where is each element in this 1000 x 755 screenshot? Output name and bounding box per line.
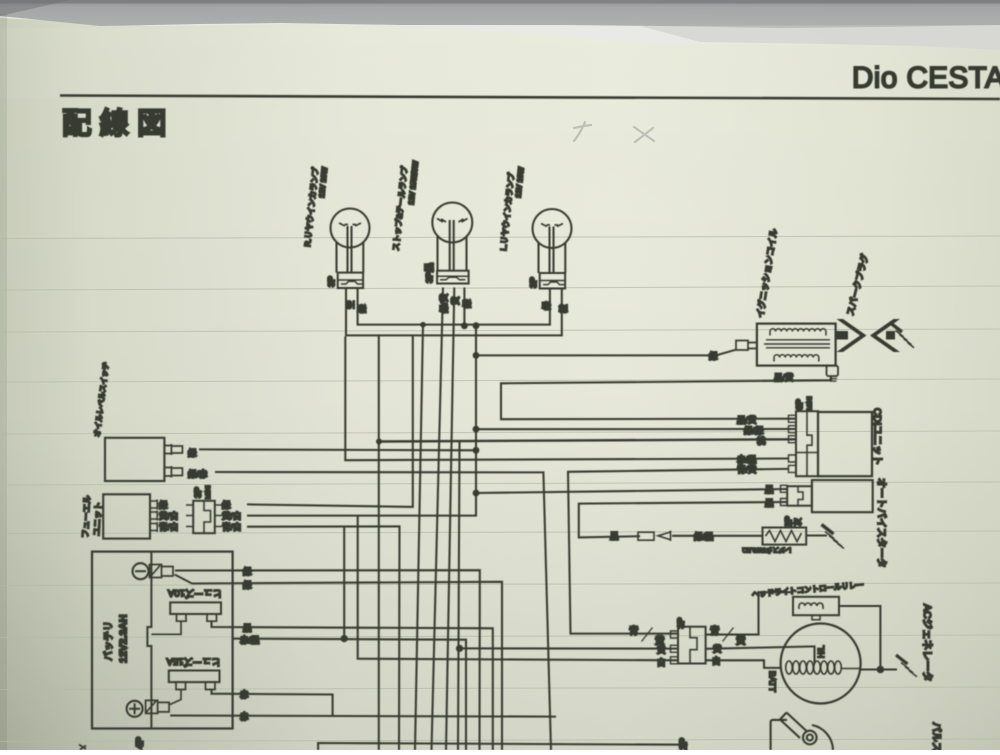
svg-text:3P: 3P <box>327 276 337 287</box>
svg-text:青/白: 青/白 <box>159 522 178 532</box>
svg-text:黄: 黄 <box>713 644 722 654</box>
svg-text:黄: 黄 <box>736 635 746 647</box>
svg-text:青/白: 青/白 <box>222 522 241 532</box>
svg-text:Dio CESTA: Dio CESTA <box>852 62 1000 95</box>
svg-text:3P: 3P <box>676 617 686 628</box>
svg-text:黒: 黒 <box>765 498 774 508</box>
svg-text:ユニット: ユニット <box>92 502 104 536</box>
svg-text:H/L: H/L <box>817 645 826 658</box>
svg-text:赤/黒: 赤/黒 <box>737 455 757 465</box>
svg-text:橙: 橙 <box>559 304 569 313</box>
svg-text:緑/緑: 緑/緑 <box>744 426 764 436</box>
svg-text:ヒューズ10A: ヒューズ10A <box>167 587 222 599</box>
svg-text:青: 青 <box>629 625 639 637</box>
svg-text:黄: 黄 <box>657 645 666 655</box>
svg-text:3P: 3P <box>193 487 203 498</box>
svg-text:黄: 黄 <box>451 296 461 305</box>
svg-text:MINI: MINI <box>205 485 212 499</box>
svg-text:緑/黒: 緑/黒 <box>694 532 714 542</box>
svg-text:緑: 緑 <box>188 448 197 458</box>
svg-text:パルスジェ: パルスジェ <box>930 722 942 750</box>
svg-text:緑: 緑 <box>243 567 252 577</box>
svg-text:緑: 緑 <box>159 500 168 510</box>
svg-text:赤: 赤 <box>240 690 249 700</box>
svg-text:黒/黄: 黒/黄 <box>774 373 794 383</box>
svg-text:灰: 灰 <box>793 518 803 526</box>
svg-text:青: 青 <box>710 625 720 637</box>
svg-text:白: 白 <box>712 656 721 666</box>
svg-text:配線図: 配線図 <box>62 108 175 141</box>
svg-text:黄/白: 黄/白 <box>222 511 241 521</box>
svg-text:緑: 緑 <box>542 301 552 310</box>
svg-text:6P: 6P <box>795 399 805 410</box>
svg-text:赤/黒: 赤/黒 <box>240 635 260 645</box>
svg-text:ACジェネレータ: ACジェネレータ <box>921 604 933 682</box>
svg-text:3P: 3P <box>529 277 539 288</box>
svg-text:MINI: MINI <box>807 396 814 410</box>
svg-text:2P: 2P <box>679 737 690 750</box>
svg-text:3P黒: 3P黒 <box>425 263 435 283</box>
svg-text:ヒューズ15A: ヒューズ15A <box>166 656 221 668</box>
svg-text:黒: 黒 <box>243 623 252 633</box>
svg-text:緑: 緑 <box>462 299 472 308</box>
svg-text:緑: 緑 <box>243 580 252 590</box>
svg-text:青/黄: 青/黄 <box>737 465 757 475</box>
svg-text:CDIユニット: CDIユニット <box>871 408 882 465</box>
svg-text:2P: 2P <box>784 516 794 527</box>
svg-text:緑/赤: 緑/赤 <box>188 469 208 479</box>
svg-text:緑: 緑 <box>357 304 367 313</box>
svg-text:12V2.3AH: 12V2.3AH <box>118 615 130 663</box>
svg-text:黒: 黒 <box>765 485 774 495</box>
svg-text:オートバイスタータ: オートバイスタータ <box>875 478 887 568</box>
svg-text:赤: 赤 <box>240 712 249 722</box>
svg-text:レジスタ5W9.5Ω: レジスタ5W9.5Ω <box>742 546 792 555</box>
svg-text:バッテリ: バッテリ <box>103 621 115 661</box>
svg-text:緑: 緑 <box>709 351 718 361</box>
svg-text:黒/黄: 黒/黄 <box>737 415 757 425</box>
svg-text:4P: 4P <box>135 736 146 749</box>
svg-text:緑/黄: 緑/黄 <box>439 293 449 313</box>
svg-text:BATT: BATT <box>768 671 778 692</box>
svg-text:緑: 緑 <box>222 500 231 510</box>
svg-text:白: 白 <box>657 658 666 668</box>
svg-text:黒: 黒 <box>610 531 619 541</box>
svg-text:空: 空 <box>346 300 356 309</box>
svg-text:桃: 桃 <box>757 436 766 446</box>
svg-text:黄/白: 黄/白 <box>159 511 178 521</box>
